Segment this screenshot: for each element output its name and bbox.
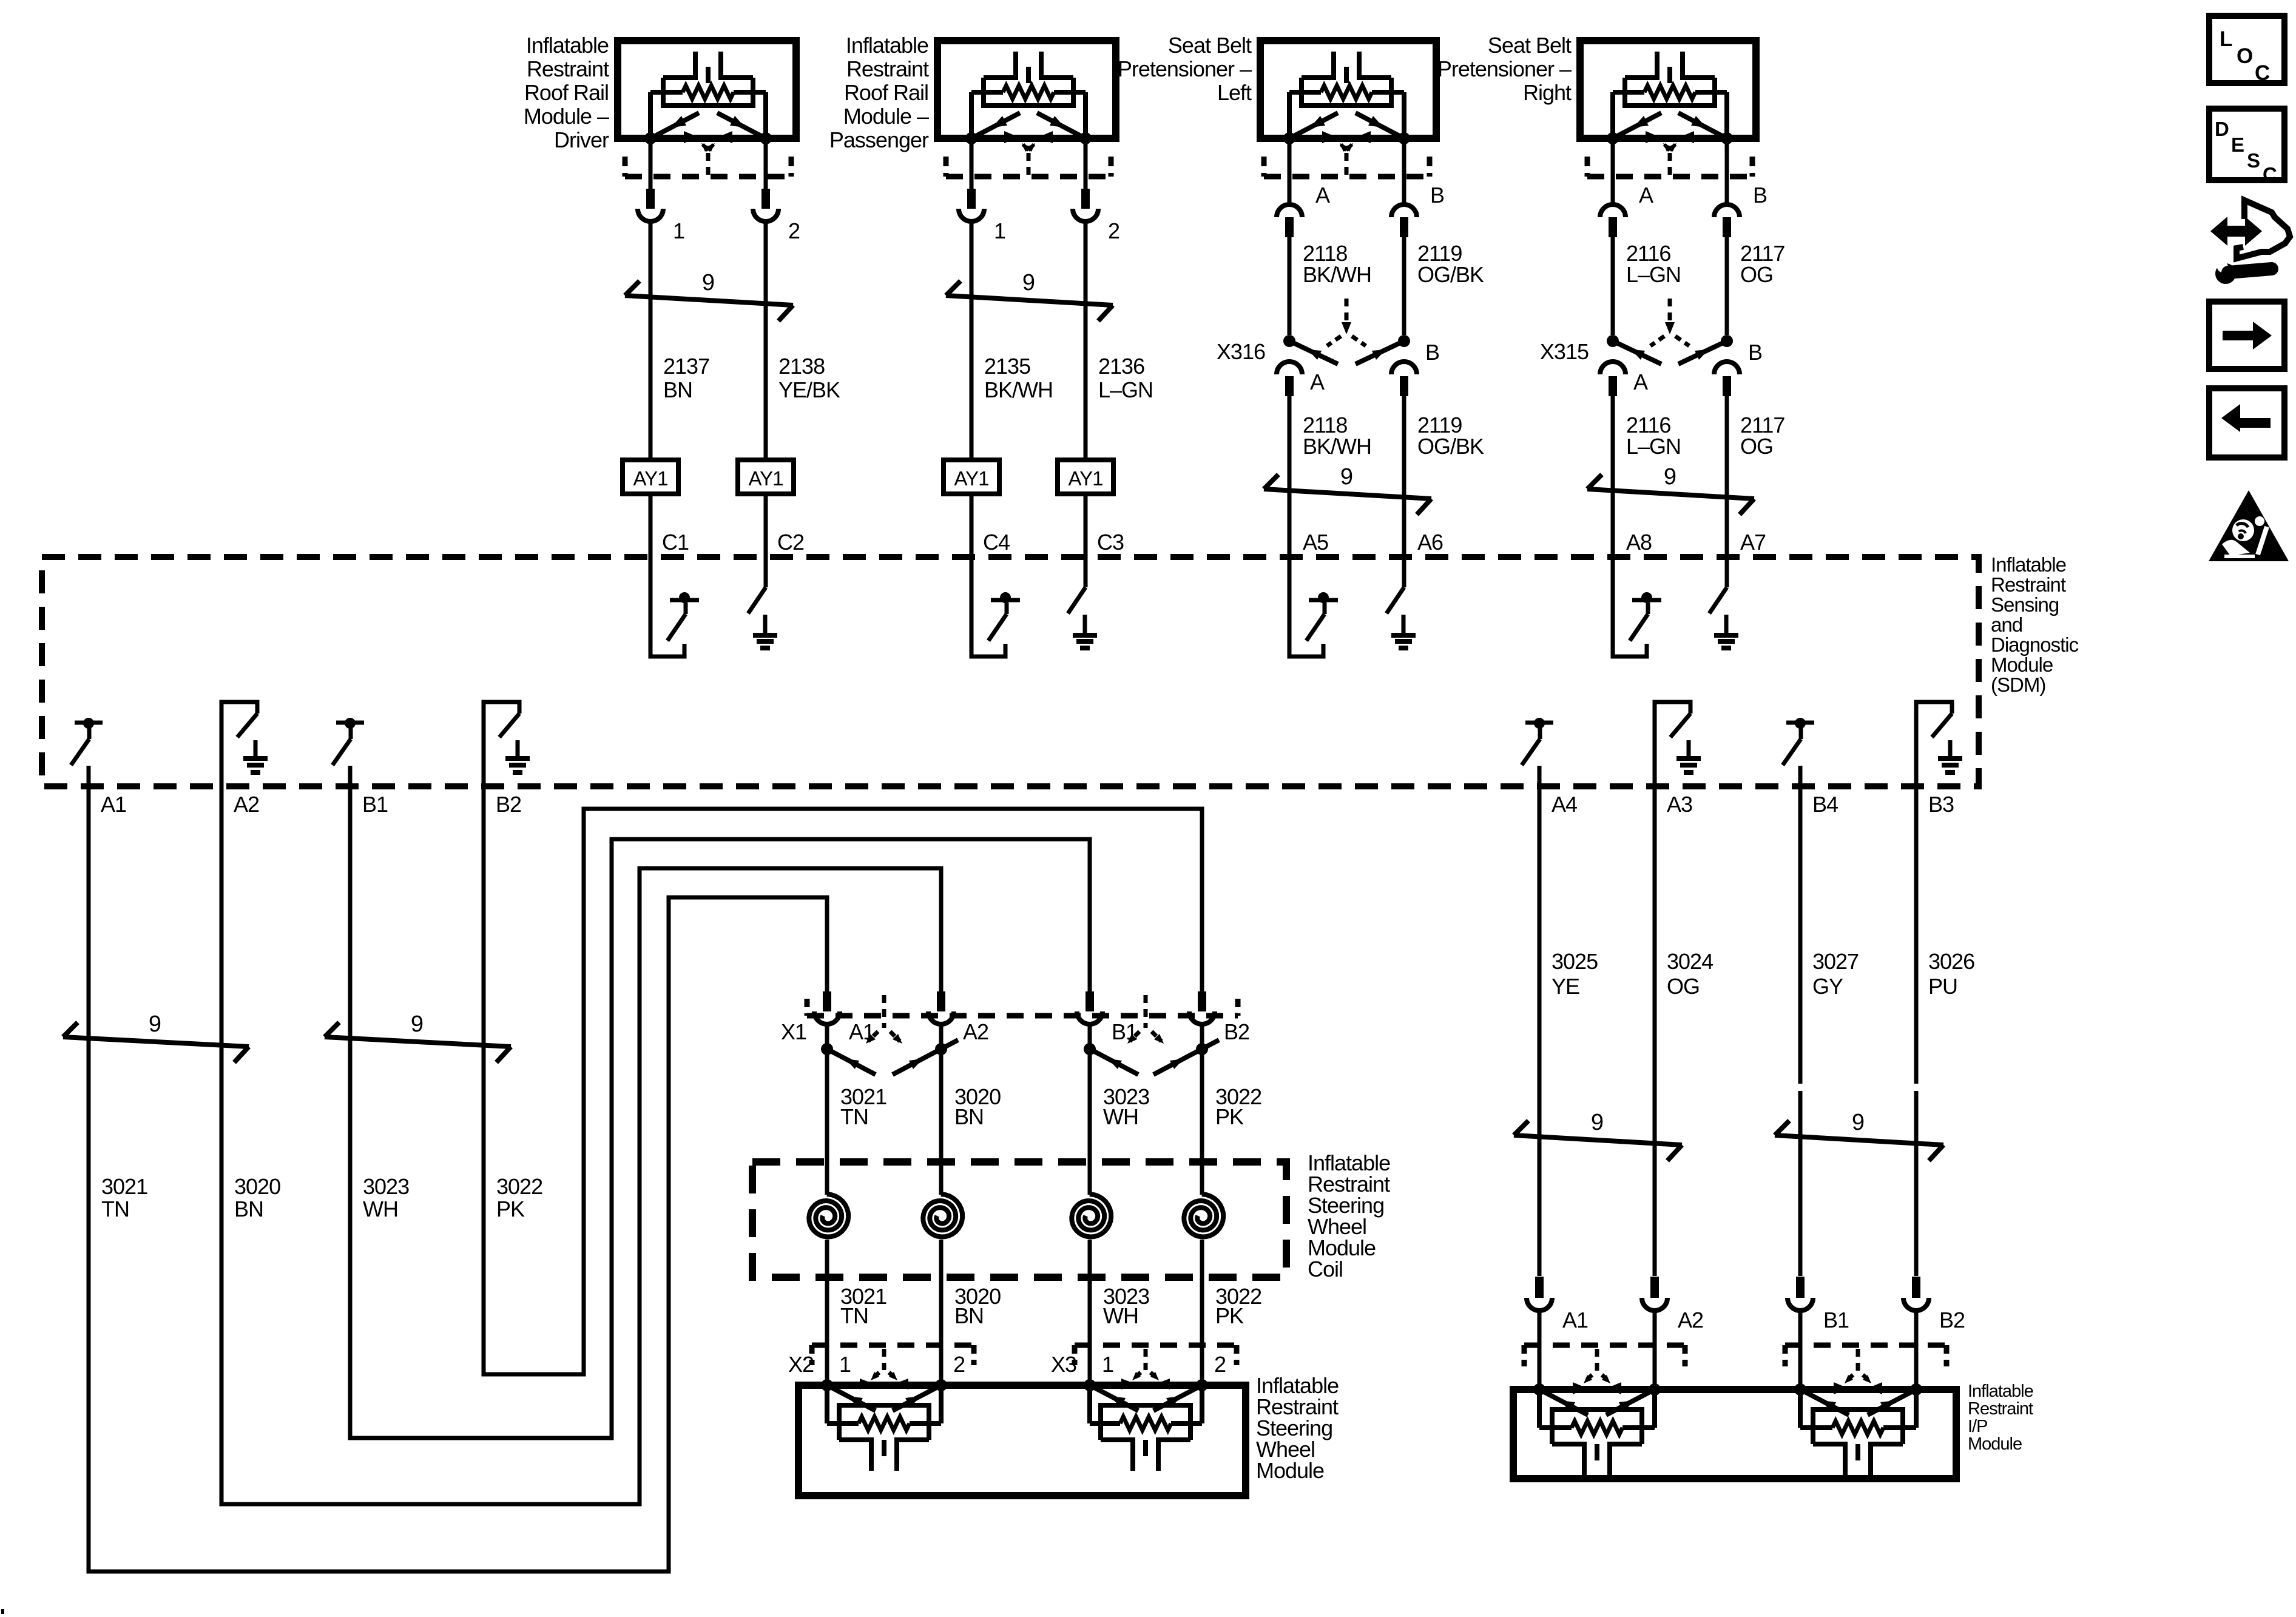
Inflatable Restraint Roof Rail Module - Passenger: shorting bar right [1037, 113, 1086, 138]
module box: Seat Belt Pretensioner - Right [1580, 41, 1756, 138]
svg-text:TN: TN [840, 1303, 868, 1328]
Inflatable Restraint Roof Rail Module - Driver: pin terminal left (stub+cup) [646, 189, 655, 209]
SDM deployment loop ground A6 [1402, 557, 1406, 587]
Seat Belt Pretensioner - Left: junction dot right pin [1398, 132, 1410, 144]
Inflatable Restraint Roof Rail Module - Driver: squib igniter [663, 75, 695, 80]
svg-text:(SDM): (SDM) [1991, 673, 2045, 696]
svg-text:B2: B2 [1939, 1308, 1965, 1332]
X1 junction dot B1 [1084, 1043, 1096, 1055]
svg-text:A6: A6 [1417, 530, 1443, 555]
steering wheel module squib: junction dot left pin [1084, 1379, 1096, 1391]
svg-text:O: O [2237, 44, 2252, 68]
Seat Belt Pretensioner - Right: shorting bar left [1613, 113, 1661, 138]
svg-text:Pretensioner –: Pretensioner – [1118, 56, 1252, 81]
svg-text:9: 9 [702, 270, 714, 295]
svg-text:X3: X3 [1051, 1352, 1076, 1377]
Seat Belt Pretensioner - Right: connector center dashed lead [1668, 153, 1672, 177]
Seat Belt Pretensioner - Right: shorting bar release arrows [1664, 144, 1670, 150]
I/P harness female cup B2 [1903, 1298, 1929, 1311]
X1 junction dot A2 [935, 1043, 947, 1055]
svg-text:WH: WH [1103, 1104, 1138, 1129]
X1 shorting diagonal right [1153, 1040, 1219, 1075]
inline connector AY1 [738, 460, 794, 494]
wire [825, 1049, 829, 1195]
svg-text:A1: A1 [1562, 1308, 1588, 1332]
svg-text:Restraint: Restraint [846, 56, 929, 81]
Inflatable Restraint Roof Rail Module - Driver: connector dashed outline [625, 174, 791, 180]
module box: Seat Belt Pretensioner - Left [1260, 41, 1436, 138]
I/P module squib: shorting bar right [1868, 1389, 1916, 1415]
svg-text:2: 2 [1108, 218, 1119, 243]
Inflatable Restraint Roof Rail Module - Passenger: junction dot left pin [965, 132, 977, 144]
X2 center dashed lead with arrows [882, 1349, 886, 1370]
wire [1084, 494, 1088, 557]
svg-text:3023: 3023 [363, 1174, 409, 1199]
svg-text:B4: B4 [1812, 792, 1838, 817]
wire [649, 494, 653, 557]
I/P connector dashed outline [1524, 1343, 1685, 1348]
svg-text:X1: X1 [781, 1019, 806, 1044]
Seat Belt Pretensioner - Left: connector mate arrows on edge [1322, 131, 1337, 143]
wire [1725, 396, 1729, 557]
I/P connector center dashed lead with arrows [1856, 1349, 1860, 1372]
svg-text:GY: GY [1812, 974, 1843, 999]
SDM deployment loop ground C2 [764, 557, 768, 587]
Inflatable Restraint Roof Rail Module - Passenger: connector mate arrows on edge [1004, 131, 1019, 143]
inline connector X315: male pin B [1723, 376, 1731, 396]
X1 male pin B1 [1086, 991, 1094, 1011]
icon repair/replace (arrow + panel + wrench) [2210, 217, 2262, 246]
I/P harness male pin B2 [1912, 1277, 1920, 1298]
svg-text:Driver: Driver [554, 127, 609, 152]
SDM deployment loop ground C3 [1084, 557, 1088, 587]
wire [825, 1024, 829, 1049]
wire [1402, 237, 1406, 335]
inline connector X315: male pin A [1609, 376, 1617, 396]
svg-text:C: C [2263, 163, 2277, 186]
SDM deployment loop driver B4 [1786, 721, 1814, 725]
inline connector X315: female cup B [1714, 362, 1740, 374]
X1 shorting diagonal left [1090, 1049, 1138, 1075]
wire [1402, 396, 1406, 557]
module box: Inflatable Restraint Roof Rail Module - Passenger [937, 41, 1116, 138]
Seat Belt Pretensioner - Right: junction dot left pin [1607, 132, 1619, 144]
wire [1084, 220, 1088, 460]
svg-text:9: 9 [1591, 1110, 1603, 1135]
steering wheel module squib: shorting bar left [1090, 1385, 1138, 1411]
svg-text:Pretensioner –: Pretensioner – [1437, 56, 1572, 81]
svg-text:B1: B1 [362, 792, 388, 817]
steering wheel module squib: squib igniter [839, 1437, 871, 1442]
I/P module squib: junction dot right pin [1649, 1383, 1661, 1396]
harness 9 crossing [63, 1037, 249, 1047]
coil winding [1072, 1194, 1111, 1237]
wire [1611, 237, 1615, 335]
svg-text:Module –: Module – [524, 104, 609, 129]
svg-text:9: 9 [1852, 1110, 1864, 1135]
icon DESC box [2209, 109, 2284, 180]
svg-text:B: B [1753, 183, 1767, 208]
SDM deployment loop ground A2 [221, 702, 257, 786]
harness 9 crossing [325, 1037, 511, 1047]
svg-text:3026: 3026 [1928, 949, 1974, 974]
icon LOC box [2209, 16, 2284, 83]
svg-text:A2: A2 [1678, 1308, 1703, 1332]
wire [1798, 786, 1803, 1276]
Inflatable Restraint Roof Rail Module - Driver: shorting bar left [650, 113, 699, 138]
wire [1725, 237, 1729, 335]
svg-text:Inflatable: Inflatable [526, 33, 609, 58]
svg-text:PU: PU [1928, 974, 1957, 999]
svg-text:Roof Rail: Roof Rail [844, 80, 928, 105]
svg-text:B2: B2 [1224, 1019, 1249, 1044]
svg-text:BN: BN [954, 1104, 984, 1129]
wire [1611, 142, 1615, 204]
inline connector X316: male pin B [1400, 376, 1408, 396]
svg-text:Right: Right [1523, 80, 1572, 105]
I/P harness female cup A1 [1527, 1298, 1552, 1311]
Seat Belt Pretensioner - Right: pin terminal right (cup+stub) [1714, 204, 1740, 217]
wire [1084, 142, 1088, 189]
Inflatable Restraint Roof Rail Module - Driver: shorting bar release arrows [703, 144, 708, 150]
harness 9 crossing [625, 295, 793, 305]
svg-text:OG: OG [1667, 974, 1700, 999]
Seat Belt Pretensioner - Left: shorting bar release arrows [1341, 144, 1346, 150]
steering wheel module squib: shorting bar left [827, 1385, 876, 1411]
svg-text:OG: OG [1740, 434, 1773, 459]
svg-text:1: 1 [673, 218, 684, 243]
svg-text:B3: B3 [1928, 792, 1954, 817]
I/P module squib: squib igniter [1813, 1442, 1845, 1447]
SDM deployment loop driver A4 [1525, 721, 1553, 725]
X1 shorting diagonal left [827, 1049, 876, 1075]
steering wheel module squib: junction dot right pin [935, 1379, 947, 1391]
svg-text:B2: B2 [496, 792, 521, 817]
svg-text:A: A [1639, 183, 1653, 208]
Seat Belt Pretensioner - Right: connector dashed outline [1587, 174, 1752, 180]
svg-text:2136: 2136 [1098, 354, 1144, 379]
svg-text:9: 9 [149, 1011, 161, 1037]
svg-text:OG: OG [1740, 262, 1773, 287]
wire [764, 494, 768, 557]
inline connector X315: female cup A [1600, 362, 1626, 374]
SDM deployment loop driver C1 [650, 557, 684, 657]
I/P harness female cup B1 [1788, 1298, 1813, 1311]
wire B1 circuit 3023 (SDM B1 to X1-B1) [350, 786, 1090, 1438]
svg-text:2135: 2135 [984, 354, 1030, 379]
svg-text:A5: A5 [1303, 530, 1328, 555]
Inflatable Restraint Roof Rail Module - Passenger: connector center dashed lead [1027, 153, 1031, 177]
icon previous (left arrow) box [2209, 388, 2284, 457]
icon next (right arrow) box [2209, 302, 2284, 369]
inline connector X315: junction dot B [1721, 335, 1733, 347]
wire seam gap [1797, 1084, 1804, 1091]
Inflatable Restraint Roof Rail Module - Passenger: shorting bar left [971, 113, 1020, 138]
SDM deployment loop ground A3 [1655, 702, 1690, 786]
svg-text:3020: 3020 [234, 1174, 280, 1199]
svg-text:9: 9 [411, 1011, 423, 1037]
wire [649, 220, 653, 460]
SDM deployment loop driver C4 [971, 557, 1005, 657]
svg-text:Module: Module [1256, 1458, 1324, 1483]
I/P module squib: squib igniter [1552, 1442, 1584, 1447]
wire [939, 1024, 944, 1049]
X1 shorting diagonal right [893, 1040, 958, 1075]
svg-text:Roof Rail: Roof Rail [524, 80, 609, 105]
wire [1288, 396, 1292, 557]
wire [1088, 1024, 1092, 1049]
svg-text:BK/WH: BK/WH [1303, 262, 1371, 287]
wire [1088, 1240, 1092, 1385]
I/P module squib: connector mate arrows on edge [1834, 1382, 1848, 1394]
svg-text:B: B [1430, 183, 1444, 208]
I/P module squib: shorting bar left [1539, 1389, 1588, 1415]
svg-text:2: 2 [953, 1352, 965, 1377]
wire [764, 220, 768, 460]
svg-text:1: 1 [839, 1352, 851, 1377]
svg-text:2: 2 [1214, 1352, 1226, 1377]
inline connector X316: junction dot A [1283, 335, 1295, 347]
svg-text:1: 1 [1102, 1352, 1113, 1377]
wire [825, 1240, 829, 1385]
svg-text:L: L [2220, 27, 2232, 51]
svg-text:PK: PK [1215, 1104, 1244, 1129]
inline connector AY1 [1058, 460, 1113, 494]
svg-text:D: D [2215, 118, 2229, 140]
svg-text:X316: X316 [1217, 339, 1265, 364]
steering wheel module squib: connector mate arrows on edge [1121, 1379, 1136, 1389]
svg-text:BN: BN [663, 377, 692, 402]
svg-text:PK: PK [1215, 1303, 1244, 1328]
svg-text:WH: WH [1103, 1303, 1138, 1328]
Inflatable Restraint Roof Rail Module - Driver: connector center dashed lead [706, 153, 711, 177]
svg-text:A2: A2 [234, 792, 259, 817]
svg-text:Restraint: Restraint [1968, 1399, 2033, 1419]
Inflatable Restraint Roof Rail Module - Passenger: shorting bar release arrows [1023, 144, 1028, 150]
I/P harness female cup A2 [1642, 1298, 1667, 1311]
svg-text:Restraint: Restraint [527, 56, 609, 81]
wire [764, 142, 768, 189]
inline connector X315: center dashed lead with arrow [1668, 299, 1672, 325]
harness 9 crossing [1514, 1135, 1682, 1145]
svg-text:3024: 3024 [1667, 949, 1713, 974]
Seat Belt Pretensioner - Left: shorting bar right [1356, 113, 1404, 138]
wire [1798, 1311, 1803, 1389]
Inflatable Restraint Roof Rail Module - Driver: pin terminal right (stub+cup) [761, 189, 770, 209]
SDM deployment loop ground A7 [1725, 557, 1729, 587]
svg-text:3025: 3025 [1551, 949, 1598, 974]
I/P connector dashed outline [1785, 1343, 1947, 1348]
Seat Belt Pretensioner - Left: pin terminal left (cup+stub) [1277, 204, 1302, 217]
Inflatable Restraint Roof Rail Module - Passenger: pin terminal left (stub+cup) [967, 189, 976, 209]
Inflatable Restraint Roof Rail Module - Passenger: junction dot right pin [1079, 132, 1092, 144]
Inflatable Restraint Roof Rail Module - Driver: connector mate arrows on edge [684, 131, 698, 143]
svg-text:Diagnostic: Diagnostic [1991, 633, 2079, 656]
svg-text:S: S [2247, 149, 2260, 172]
svg-text:Passenger: Passenger [829, 127, 929, 152]
svg-text:BK/WH: BK/WH [1303, 434, 1371, 459]
X1 male pin A1 [823, 991, 831, 1011]
SDM module dashed box (Inflatable Restraint Sensing and Diagnostic Module) [42, 557, 1979, 786]
harness 9 crossing [1775, 1135, 1943, 1145]
svg-text:3021: 3021 [101, 1174, 147, 1199]
module box: Inflatable Restraint Steering Wheel Module [799, 1385, 1246, 1496]
Seat Belt Pretensioner - Left: shorting bar left [1289, 113, 1338, 138]
Seat Belt Pretensioner - Right: pin terminal left (cup+stub) [1600, 204, 1626, 217]
steering wheel module squib: junction dot right pin [1196, 1379, 1208, 1391]
I/P module squib: junction dot right pin [1910, 1383, 1922, 1396]
X1 center dashed lead with arrows [1144, 995, 1148, 1028]
inline connector AY1 [623, 460, 678, 494]
icon SRS warning triangle [2209, 490, 2289, 561]
harness 9 crossing [1587, 489, 1754, 499]
svg-text:AY1: AY1 [1069, 467, 1103, 490]
Seat Belt Pretensioner - Left: connector dashed outline [1264, 174, 1430, 180]
connector X1 dashed line [807, 1013, 1238, 1019]
svg-text:9: 9 [1340, 464, 1352, 490]
Seat Belt Pretensioner - Right: squib igniter [1625, 75, 1657, 80]
svg-text:L–GN: L–GN [1098, 377, 1153, 402]
svg-text:OG/BK: OG/BK [1417, 434, 1484, 459]
X1 female cup B2 [1189, 1011, 1215, 1024]
Seat Belt Pretensioner - Left: pin terminal right (cup+stub) [1391, 204, 1417, 217]
svg-text:Left: Left [1217, 80, 1252, 105]
wire [970, 142, 974, 189]
wire [1914, 786, 1919, 1276]
wire [649, 142, 653, 189]
steering wheel module squib: connector mate arrows on edge [860, 1379, 874, 1389]
steering wheel module squib: shorting bar right [1153, 1385, 1202, 1411]
X1 female cup B1 [1077, 1011, 1102, 1024]
wire [1653, 786, 1657, 1276]
svg-text:I/P: I/P [1968, 1417, 1987, 1436]
wire [970, 494, 974, 557]
I/P harness male pin A1 [1535, 1277, 1544, 1298]
I/P harness male pin A2 [1650, 1277, 1659, 1298]
wire B2 circuit 3022 (SDM B2 to X1-B2) [484, 786, 1202, 1374]
svg-text:E: E [2231, 133, 2244, 156]
svg-text:A: A [1315, 183, 1330, 208]
svg-text:Module –: Module – [843, 104, 929, 129]
I/P module squib: shorting bar left [1800, 1389, 1849, 1415]
inline connector X316: male pin A [1285, 376, 1294, 396]
I/P module squib: connector mate arrows on edge [1573, 1382, 1587, 1394]
svg-text:C1: C1 [662, 530, 689, 555]
inline connector AY1 [944, 460, 999, 494]
svg-text:3027: 3027 [1812, 949, 1859, 974]
Inflatable Restraint Roof Rail Module - Driver: junction dot left pin [644, 132, 657, 144]
svg-text:2137: 2137 [663, 354, 709, 379]
svg-text:Seat Belt: Seat Belt [1488, 33, 1572, 58]
wire [1538, 1311, 1542, 1389]
wire [1288, 142, 1292, 204]
Inflatable Restraint Roof Rail Module - Driver: junction dot right pin [760, 132, 772, 144]
svg-text:Sensing: Sensing [1991, 593, 2059, 616]
svg-text:Module: Module [1968, 1434, 2022, 1454]
X1 female cup A1 [814, 1011, 840, 1024]
svg-text:YE: YE [1551, 974, 1579, 999]
steering wheel module squib: shorting bar right [893, 1385, 941, 1411]
harness 9 crossing [946, 295, 1113, 305]
I/P module squib: junction dot left pin [1533, 1383, 1545, 1396]
svg-text:OG/BK: OG/BK [1417, 262, 1484, 287]
inline connector X316: center dashed lead with arrow [1345, 299, 1349, 325]
wire [1200, 1024, 1204, 1049]
X1 male pin A2 [937, 991, 945, 1011]
Inflatable Restraint Roof Rail Module - Passenger: pin terminal right (stub+cup) [1081, 189, 1090, 209]
I/P harness male pin B1 [1796, 1277, 1805, 1298]
page mark [1, 1609, 4, 1614]
svg-text:PK: PK [496, 1197, 525, 1221]
svg-text:WH: WH [363, 1197, 398, 1221]
svg-text:B: B [1748, 340, 1762, 365]
svg-text:C4: C4 [983, 530, 1010, 555]
svg-text:9: 9 [1664, 464, 1676, 490]
Seat Belt Pretensioner - Right: shorting bar right [1678, 113, 1727, 138]
svg-text:2138: 2138 [778, 354, 825, 379]
svg-text:C3: C3 [1097, 530, 1124, 555]
svg-text:A2: A2 [963, 1019, 988, 1044]
wire [1288, 237, 1292, 335]
svg-text:X2: X2 [788, 1352, 814, 1377]
Seat Belt Pretensioner - Left: connector center dashed lead [1345, 153, 1349, 177]
wire seam gap [1913, 1084, 1920, 1091]
SDM deployment loop ground B2 [484, 702, 519, 786]
Seat Belt Pretensioner - Right: connector mate arrows on edge [1646, 131, 1660, 143]
svg-text:1: 1 [994, 218, 1005, 243]
X1 junction dot B2 [1196, 1043, 1208, 1055]
svg-text:and: and [1991, 613, 2022, 636]
wire A1 circuit 3021 (SDM A1 to X1-A1) [89, 786, 827, 1571]
svg-text:L–GN: L–GN [1626, 262, 1681, 287]
svg-text:Module: Module [1991, 653, 2053, 676]
steering wheel module squib: junction dot left pin [821, 1379, 833, 1391]
svg-text:A7: A7 [1740, 530, 1766, 555]
inline connector X316: shorting diagonal left [1289, 341, 1338, 364]
svg-text:C: C [2255, 61, 2270, 85]
svg-text:B1: B1 [1823, 1308, 1849, 1332]
svg-text:Inflatable: Inflatable [846, 33, 928, 58]
wire [939, 1049, 944, 1195]
inline connector X316: junction dot B [1398, 335, 1410, 347]
svg-text:A: A [1310, 370, 1325, 394]
wire [1200, 1240, 1204, 1385]
svg-text:YE/BK: YE/BK [778, 377, 840, 402]
X1 junction dot A1 [821, 1043, 833, 1055]
inline connector X315: shorting diagonal right [1678, 341, 1727, 364]
svg-text:TN: TN [101, 1197, 129, 1221]
svg-text:A: A [1633, 370, 1648, 394]
SDM deployment loop driver A1 [75, 721, 103, 725]
I/P module squib: shorting bar right [1606, 1389, 1655, 1415]
X3 center dashed lead with arrows [1144, 1349, 1148, 1370]
wire [1611, 396, 1615, 557]
Inflatable Restraint Roof Rail Module - Passenger: connector dashed outline [946, 174, 1111, 180]
SDM deployment loop driver A8 [1613, 557, 1647, 657]
inline connector X316: female cup B [1391, 362, 1417, 374]
svg-text:Inflatable: Inflatable [1968, 1382, 2033, 1401]
svg-text:B: B [1425, 340, 1439, 365]
wire [1538, 786, 1542, 1276]
module box: Inflatable Restraint Roof Rail Module - Driver [618, 41, 796, 138]
Inflatable Restraint Roof Rail Module - Passenger: squib igniter [984, 75, 1016, 80]
svg-text:A1: A1 [101, 792, 126, 817]
SDM deployment loop driver A5 [1289, 557, 1323, 657]
wire [1402, 142, 1406, 204]
wire [1914, 1311, 1919, 1389]
wire [1725, 142, 1729, 204]
wire A2 circuit 3020 (SDM A2 to X1-A2) [221, 786, 941, 1504]
